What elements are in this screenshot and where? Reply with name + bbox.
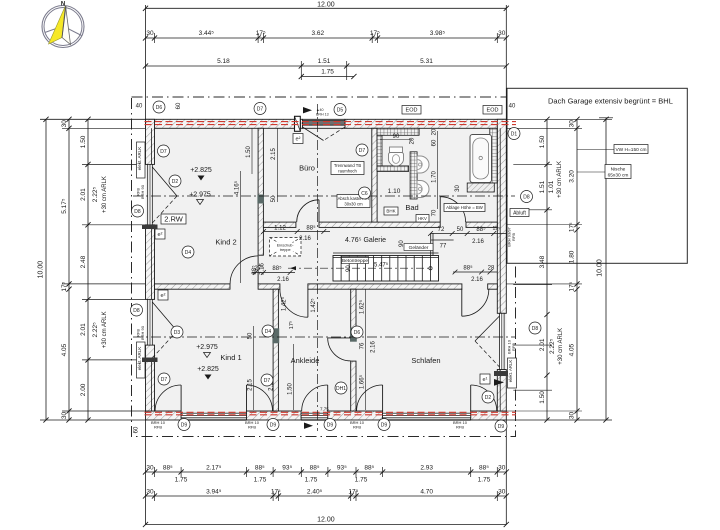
svg-text:1.10: 1.10 — [388, 188, 401, 195]
svg-text:17⁵: 17⁵ — [271, 489, 281, 496]
door Bad — [440, 197, 465, 222]
svg-text:2.22⁵: 2.22⁵ — [549, 338, 556, 354]
svg-text:Dach Garage extensiv begrünt =: Dach Garage extensiv begrünt = BHL — [548, 97, 673, 106]
section line vertical A-A — [317, 104, 319, 431]
svg-text:88⁵: 88⁵ — [310, 465, 320, 472]
svg-text:1.70: 1.70 — [432, 171, 438, 183]
svg-text:88⁵: 88⁵ — [463, 265, 473, 272]
svg-text:D9: D9 — [270, 422, 277, 428]
door corridor to Kind 1 / Ankleide — [280, 289, 308, 317]
label box VW H=150 cm — [577, 149, 614, 151]
EOD box 1 — [402, 106, 421, 115]
svg-text:+30 cm ARLK: +30 cm ARLK — [558, 328, 564, 365]
svg-text:1.62⁵: 1.62⁵ — [358, 299, 365, 314]
dark sill bars left wall — [142, 225, 158, 230]
svg-text:10.00: 10.00 — [597, 259, 604, 277]
svg-text:2.40⁵: 2.40⁵ — [307, 489, 323, 496]
svg-text:30: 30 — [455, 185, 461, 192]
svg-text:Bad: Bad — [405, 203, 418, 212]
svg-text:3.94⁵: 3.94⁵ — [206, 489, 222, 496]
svg-text:30: 30 — [569, 412, 576, 420]
svg-text:+30 cm ARLK: +30 cm ARLK — [102, 176, 108, 213]
svg-text:17⁵: 17⁵ — [569, 222, 576, 232]
kind1 dim 50/2.15 — [253, 326, 255, 410]
svg-text:90: 90 — [346, 265, 352, 272]
schlafen right window bar — [494, 371, 508, 376]
dimension 72/50/77 right of stairs — [428, 226, 506, 250]
svg-text:90: 90 — [399, 240, 405, 247]
svg-text:D9: D9 — [181, 422, 188, 428]
e2 box buero — [293, 134, 303, 144]
partition Kind1 / Ankleide — [273, 289, 278, 411]
svg-text:2.16: 2.16 — [299, 236, 311, 242]
svg-text:60: 60 — [134, 426, 140, 433]
right window Schlafen — [475, 313, 504, 369]
svg-text:e¹: e¹ — [483, 377, 488, 383]
svg-text:Schlafen: Schlafen — [411, 356, 440, 365]
svg-text:93⁵: 93⁵ — [337, 465, 347, 472]
partition Buero / WC vertical V2 — [372, 128, 377, 226]
dark post on V1 — [257, 195, 264, 204]
svg-text:raumhoch: raumhoch — [338, 169, 357, 174]
left dimension chain group — [38, 117, 146, 423]
outer wall top — [146, 119, 507, 128]
svg-text:2.48: 2.48 — [80, 255, 87, 268]
svg-text:N: N — [61, 2, 65, 8]
elekt ARLK boxes left — [137, 142, 146, 178]
ankleide dim 1.50 — [293, 344, 295, 410]
left window Kind 2 — [148, 164, 177, 224]
svg-text:2.22⁵: 2.22⁵ — [92, 322, 99, 338]
svg-text:50: 50 — [247, 332, 253, 339]
svg-text:30: 30 — [146, 489, 154, 496]
section arrow right schlafen — [494, 379, 504, 386]
svg-text:60: 60 — [432, 139, 438, 146]
svg-text:D7: D7 — [161, 377, 168, 383]
svg-text:88⁵: 88⁵ — [306, 225, 316, 232]
svg-text:Ankleide: Ankleide — [291, 356, 320, 365]
spot height +2.975 Kind2 — [189, 192, 211, 205]
svg-text:EOD: EOD — [406, 108, 418, 114]
svg-text:4.76⁵ Galerie: 4.76⁵ Galerie — [345, 237, 386, 244]
svg-text:2.01: 2.01 — [539, 338, 546, 351]
svg-text:D2: D2 — [485, 395, 492, 401]
svg-text:1.50: 1.50 — [80, 135, 87, 148]
svg-text:2.01: 2.01 — [80, 323, 87, 336]
svg-text:e²: e² — [296, 136, 301, 142]
svg-text:30: 30 — [146, 465, 154, 472]
building interior fill — [146, 119, 507, 420]
svg-text:3.20: 3.20 — [569, 170, 576, 183]
spot height +2.825 Kind2 — [190, 167, 212, 181]
svg-text:88⁵: 88⁵ — [251, 265, 258, 275]
svg-text:17⁵: 17⁵ — [348, 489, 358, 496]
svg-text:e²: e² — [161, 293, 166, 299]
svg-text:93⁵: 93⁵ — [282, 465, 292, 472]
door Kind 2 — [230, 256, 258, 284]
svg-text:88⁵: 88⁵ — [479, 465, 489, 472]
svg-text:1.51: 1.51 — [539, 180, 546, 193]
svg-text:1.42⁵: 1.42⁵ — [310, 298, 317, 313]
HKV box — [416, 215, 429, 223]
spot height +2.975 Kind1 — [196, 344, 218, 358]
svg-text:12.00: 12.00 — [317, 2, 335, 9]
svg-text:RFB: RFB — [154, 425, 162, 430]
e1 box schlafen — [480, 374, 490, 384]
svg-text:1.75: 1.75 — [478, 477, 491, 484]
EOD box 2 — [483, 106, 502, 115]
svg-text:30: 30 — [498, 489, 506, 496]
svg-text:2.RW: 2.RW — [164, 215, 184, 224]
svg-text:1.50: 1.50 — [246, 146, 252, 158]
railing Gelaender around stair opening — [333, 233, 439, 258]
svg-text:2.01: 2.01 — [80, 188, 87, 201]
svg-text:+2.975: +2.975 — [196, 344, 218, 351]
svg-text:88⁵: 88⁵ — [364, 465, 374, 472]
svg-text:5.47⁵: 5.47⁵ — [374, 262, 389, 269]
elekt ARLK box right schlafen — [508, 358, 517, 388]
svg-text:19⁵: 19⁵ — [493, 226, 501, 232]
washbasin 1 — [417, 156, 429, 173]
door Schlafen — [462, 289, 489, 316]
svg-text:D6: D6 — [354, 330, 361, 336]
svg-text:2.16: 2.16 — [260, 263, 266, 275]
svg-text:2.22⁵: 2.22⁵ — [92, 187, 99, 203]
svg-text:1.42⁵: 1.42⁵ — [281, 296, 288, 311]
svg-text:30: 30 — [61, 412, 68, 420]
svg-text:76: 76 — [359, 342, 365, 349]
tub tiled wall right — [490, 128, 498, 183]
svg-text:Abluft: Abluft — [513, 210, 526, 216]
svg-text:D4: D4 — [265, 329, 272, 335]
bottom dimension chain group — [143, 420, 509, 527]
washbasin 2 — [417, 181, 429, 198]
staircase Betontreppe — [288, 256, 439, 282]
svg-text:Einschub-: Einschub- — [277, 244, 295, 248]
svg-text:2.15: 2.15 — [247, 379, 253, 391]
svg-text:1.50: 1.50 — [539, 391, 546, 404]
svg-text:4.05: 4.05 — [61, 343, 68, 356]
svg-text:RFB: RFB — [456, 425, 464, 430]
top wall opening window symbol — [303, 119, 346, 140]
dimension 27.5/88.5 left of stairs — [252, 265, 295, 283]
galerie dimension 1.12 / 88.5 — [261, 225, 330, 243]
svg-text:90: 90 — [393, 134, 400, 140]
svg-text:72: 72 — [438, 227, 445, 233]
section line horizontal upper — [133, 195, 515, 197]
svg-text:+30 cm ARLK: +30 cm ARLK — [557, 161, 563, 198]
svg-text:1.66⁵: 1.66⁵ — [358, 374, 365, 389]
svg-text:40: 40 — [136, 104, 143, 110]
svg-text:D1: D1 — [511, 131, 518, 137]
vent marker symbol — [316, 108, 329, 117]
svg-text:Nische: Nische — [611, 167, 626, 173]
svg-text:D8: D8 — [134, 209, 141, 215]
svg-text:BHK: BHK — [386, 209, 395, 214]
svg-text:40: 40 — [509, 104, 516, 110]
svg-text:4.05: 4.05 — [569, 343, 576, 356]
svg-text:+2.825: +2.825 — [197, 366, 219, 373]
section arrow top — [303, 107, 312, 113]
door Buero — [297, 200, 319, 222]
section line horizontal lower — [133, 336, 515, 338]
svg-text:D7: D7 — [257, 106, 264, 112]
svg-text:2.16: 2.16 — [277, 277, 289, 283]
svg-text:DH1: DH1 — [336, 386, 346, 392]
outer wall bottom with window piers — [146, 411, 507, 420]
svg-text:17⁵: 17⁵ — [288, 321, 295, 329]
svg-text:BRH 13: BRH 13 — [316, 113, 329, 117]
svg-text:2.16: 2.16 — [471, 277, 483, 283]
svg-text:+2.825: +2.825 — [190, 167, 212, 174]
red dashed BHL roof line bottom — [145, 411, 517, 413]
svg-text:Betontreppe: Betontreppe — [342, 258, 368, 264]
corridor wall horizontal H mid — [155, 284, 231, 289]
partition Ankleide / Schlafen — [351, 289, 356, 338]
svg-text:30: 30 — [569, 120, 576, 128]
svg-text:4.70: 4.70 — [420, 489, 433, 496]
svg-text:5.17⁵: 5.17⁵ — [61, 198, 68, 214]
right dimension chain group — [506, 117, 648, 423]
svg-text:D6: D6 — [156, 105, 163, 111]
Einschubtreppe hatch box — [270, 238, 302, 257]
svg-text:Kind 1: Kind 1 — [220, 353, 241, 362]
buero dim 2.15/50 — [277, 129, 279, 203]
label box Nische 65x30 cm — [577, 171, 605, 173]
svg-text:elekt. ARLK: elekt. ARLK — [508, 360, 513, 383]
svg-text:RFB: RFB — [248, 425, 256, 430]
svg-text:30: 30 — [146, 30, 154, 37]
svg-text:RFB: RFB — [511, 233, 516, 241]
toilet WC — [389, 147, 404, 166]
svg-text:3.62: 3.62 — [311, 30, 324, 37]
svg-text:88⁵: 88⁵ — [476, 226, 486, 233]
svg-text:1.75: 1.75 — [305, 477, 318, 484]
svg-text:1.75: 1.75 — [175, 477, 188, 484]
e2 box kind1 — [158, 290, 168, 300]
svg-text:1.80: 1.80 — [569, 250, 576, 263]
svg-text:D7: D7 — [359, 148, 366, 154]
Abstellkasten label box — [337, 195, 370, 208]
svg-text:D3: D3 — [174, 330, 181, 336]
svg-text:2.00: 2.00 — [80, 383, 87, 396]
WC tiled walls — [377, 128, 419, 135]
svg-text:e²: e² — [158, 232, 163, 238]
svg-text:12.00: 12.00 — [317, 517, 335, 524]
svg-text:Geländer: Geländer — [409, 245, 429, 251]
svg-text:50: 50 — [271, 195, 277, 202]
svg-text:20: 20 — [432, 128, 438, 135]
plan boundary (dash-dot property line) — [132, 97, 516, 437]
compass rose north arrow — [42, 2, 84, 48]
svg-text:4.16⁵: 4.16⁵ — [233, 180, 240, 195]
svg-text:D4: D4 — [185, 250, 192, 256]
svg-text:3.98⁵: 3.98⁵ — [430, 30, 446, 37]
bathtub — [470, 135, 492, 183]
svg-text:65x30 cm: 65x30 cm — [608, 173, 629, 179]
svg-text:1.75: 1.75 — [355, 477, 368, 484]
shelf hatched below tub — [467, 183, 494, 192]
svg-text:70: 70 — [432, 209, 438, 216]
svg-text:Trennwand TB: Trennwand TB — [334, 163, 361, 168]
svg-text:30: 30 — [61, 120, 68, 128]
dimension 88.5/28 corridor right — [453, 265, 498, 284]
section arrow bottom — [304, 423, 313, 429]
door Ankleide-Schlafen — [328, 338, 351, 361]
svg-text:Büro: Büro — [299, 164, 315, 173]
outer wall left with window gaps — [146, 119, 155, 411]
garage box — [507, 88, 687, 263]
kind2 dim 1.50 — [251, 129, 253, 175]
Ablage Hoehe label box — [444, 204, 485, 212]
svg-text:D2: D2 — [172, 179, 179, 185]
svg-text:5.18: 5.18 — [217, 58, 230, 65]
red dashed BHL roof line top — [145, 121, 517, 123]
svg-text:17⁵: 17⁵ — [61, 281, 68, 291]
svg-text:88⁵: 88⁵ — [255, 465, 265, 472]
bottom windows glazing — [181, 413, 246, 420]
svg-text:D9: D9 — [381, 422, 388, 428]
svg-text:88⁵: 88⁵ — [272, 265, 282, 272]
svg-text:D9: D9 — [327, 422, 334, 428]
svg-text:5.31: 5.31 — [420, 58, 433, 65]
svg-text:1.50: 1.50 — [539, 135, 546, 148]
svg-text:BRH 90: BRH 90 — [140, 184, 145, 199]
svg-text:2.16: 2.16 — [371, 341, 377, 353]
svg-text:88⁵: 88⁵ — [163, 465, 173, 472]
svg-text:D8: D8 — [133, 308, 140, 314]
svg-text:D8: D8 — [523, 194, 530, 200]
svg-text:7,75: 7,75 — [320, 407, 329, 412]
svg-text:2.17⁵: 2.17⁵ — [206, 465, 222, 472]
position circles — [153, 101, 165, 113]
Abluft label box — [510, 209, 529, 217]
kind2 dim 4.16 — [240, 171, 242, 283]
svg-text:10.00: 10.00 — [38, 261, 45, 279]
chimney element — [295, 116, 301, 131]
svg-text:RFB: RFB — [511, 343, 516, 351]
svg-text:1.75: 1.75 — [254, 477, 267, 484]
svg-text:+30 cm ARLK: +30 cm ARLK — [102, 311, 108, 348]
svg-text:20: 20 — [410, 137, 416, 144]
e2 box kind2 — [155, 229, 165, 239]
svg-text:elekt. ARLK: elekt. ARLK — [137, 147, 142, 171]
bath dim 90/20 — [380, 139, 412, 141]
svg-text:2.93: 2.93 — [420, 465, 433, 472]
2.RW label box — [161, 214, 186, 224]
svg-text:EOD: EOD — [487, 108, 499, 114]
svg-text:D7: D7 — [264, 378, 271, 384]
BHK box — [384, 207, 398, 215]
svg-text:2.15: 2.15 — [271, 148, 277, 160]
svg-text:Kind 2: Kind 2 — [215, 238, 236, 247]
svg-text:3.44⁵: 3.44⁵ — [199, 30, 215, 37]
svg-text:▲40: ▲40 — [316, 108, 324, 112]
svg-text:17⁵: 17⁵ — [256, 30, 266, 37]
svg-text:RFB: RFB — [353, 425, 361, 430]
svg-text:C6: C6 — [361, 191, 368, 197]
svg-text:D7: D7 — [160, 149, 167, 155]
svg-text:28: 28 — [488, 266, 495, 272]
svg-text:BRH 90: BRH 90 — [140, 325, 145, 340]
top dimension chain group — [143, 2, 509, 120]
svg-text:60: 60 — [176, 102, 182, 109]
svg-text:3.48: 3.48 — [539, 255, 546, 268]
partition Kind2 / Buero vertical V1 — [258, 128, 263, 255]
partition under Buero/Bad horizontal — [263, 222, 296, 227]
svg-text:HKV: HKV — [418, 216, 427, 221]
svg-text:elekt. ARLK: elekt. ARLK — [137, 347, 142, 371]
svg-text:50: 50 — [457, 227, 464, 233]
window swing arcs bottom wall — [155, 385, 181, 411]
svg-text:D9: D9 — [498, 424, 505, 430]
svg-text:17⁵: 17⁵ — [370, 30, 380, 37]
Trennwand TB label box — [331, 162, 364, 175]
svg-text:1.01: 1.01 — [548, 180, 555, 193]
svg-text:+2.975: +2.975 — [189, 192, 211, 199]
schlafen dims 1.62/76/1.66 — [365, 289, 367, 410]
svg-text:17⁵: 17⁵ — [569, 281, 576, 291]
svg-text:Ablage Höhe = BW: Ablage Höhe = BW — [446, 205, 484, 210]
svg-text:D5: D5 — [337, 107, 344, 113]
svg-text:30: 30 — [498, 30, 506, 37]
svg-text:1.50: 1.50 — [287, 383, 293, 395]
svg-text:1.75: 1.75 — [321, 69, 334, 76]
svg-text:1.12: 1.12 — [274, 226, 286, 232]
svg-text:77: 77 — [440, 244, 447, 250]
outer wall right with window gap — [497, 119, 506, 411]
svg-text:30: 30 — [498, 465, 506, 472]
svg-text:2.16: 2.16 — [472, 239, 484, 245]
wall inner face second lines — [152, 128, 501, 410]
svg-text:treppe: treppe — [280, 248, 291, 252]
spot height +2.825 Kind1 — [197, 366, 219, 380]
bath dim 60/20 vertical — [437, 131, 439, 209]
svg-text:VW H=150 cm: VW H=150 cm — [615, 147, 646, 153]
svg-text:1.51: 1.51 — [318, 58, 331, 65]
svg-text:D8: D8 — [532, 326, 539, 332]
svg-text:30x30 cm: 30x30 cm — [344, 202, 363, 207]
